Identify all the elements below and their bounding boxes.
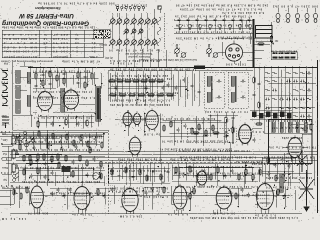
osc vert 206: [205, 20, 207, 33]
if cap 146: [145, 86, 148, 91]
band contact circles: [18, 138, 35, 147]
aud res 24-172: [23, 169, 25, 176]
if res row2 170: [166, 94, 174, 96]
lm res 48-146: [47, 143, 49, 150]
tube V5 EM80: [128, 135, 142, 157]
bs vert 1: [263, 66, 265, 133]
lm res 88-144: [87, 141, 89, 148]
bt res 98: [97, 189, 99, 196]
ld vert 5: [139, 163, 141, 183]
bt cap 112: [111, 188, 114, 193]
lr cap 225: [224, 174, 227, 179]
IF2 coil a: [231, 76, 234, 86]
switch spring right: [158, 17, 161, 46]
svg-text:70 12k 12k 500 70 10n 220k 5p: 70 12k 12k 500 70 10n 220k 5p 4,7n 0,5M …: [173, 172, 258, 175]
m2 res 192: [191, 128, 193, 135]
aud cap 73-162: [72, 160, 75, 165]
lm res 67-137: [66, 134, 68, 141]
svg-text:500 220k 47 6,8 50 2k2: 500 220k 47 6,8 50 2k2: [272, 5, 318, 8]
osc vert 242: [241, 20, 243, 33]
svg-text:4x: 4x: [43, 33, 47, 37]
svg-text:MW: MW: [1, 114, 6, 118]
if cap 176: [175, 86, 178, 91]
osc trimmer 7: [238, 24, 242, 30]
rf v2 R@83: [42, 79, 44, 86]
v6 left C@132: [225, 130, 228, 135]
if res row1 160: [156, 80, 164, 82]
v7res: [310, 124, 312, 131]
bt cap 158: [157, 193, 160, 198]
ld vert 2: [118, 161, 120, 181]
osc vert 224: [223, 20, 225, 33]
lm cap 95-139: [94, 137, 97, 142]
lm sym 25: [23, 131, 26, 134]
svg-text:2k2 0,5M 1M 6,8 70 12k 10n 6,8: 2k2 0,5M 1M 6,8 70 12k 10n 6,8: [111, 74, 168, 77]
coupling coil L4: [27, 72, 31, 83]
svg-text:UKW 868-100 MHz: UKW 868-100 MHz: [4, 37, 38, 41]
v6 left R@120: [225, 116, 227, 123]
ld res 126: [125, 166, 127, 173]
if vert 13: [191, 71, 193, 106]
tube V3a EABC80: [121, 110, 135, 127]
v6 left2 wire: [232, 112, 234, 144]
svg-text:8n 0,1 0,1 3n 47 47 10n 1k 50: 8n 0,1 0,1 3n 47 47 10n 1k 50 100p 47 22…: [179, 7, 262, 10]
tc c1: [36, 159, 39, 164]
switch contact A2: [116, 17, 122, 24]
v6 left2 R@130: [232, 126, 234, 133]
if cap 192: [191, 84, 194, 89]
bs cap 295.5-81: [293, 80, 298, 83]
bs coil 267.5-90: [266, 89, 270, 91]
bt res 21: [20, 193, 22, 200]
C below V1: [51, 122, 54, 127]
rf v6 C@83: [77, 81, 80, 86]
if vert 12: [184, 71, 186, 107]
tube V3b: [132, 111, 146, 126]
lm sym 32: [30, 136, 33, 139]
bs coil 309-108: [307, 107, 311, 109]
bs cap 295.5-99: [293, 98, 298, 101]
osc row1 cap 1: [178, 18, 181, 23]
aud res 52-159: [51, 156, 53, 163]
aud cap 94-159: [93, 157, 96, 162]
bs cap 267.5-108: [265, 107, 270, 110]
aud res 31-162: [30, 159, 32, 166]
if cap 168: [167, 83, 170, 88]
rf v8 R@76: [91, 72, 93, 79]
v6 left2 C@118: [232, 116, 235, 121]
IF col B: [96, 86, 101, 121]
meter box arrow: [270, 40, 274, 45]
lm res 81-138: [80, 135, 82, 142]
rf v4 R@78: [56, 74, 58, 81]
bs coil 281.5-108: [280, 107, 284, 109]
svg-text:100p 500 25k 1M 5p 0,1 8n 5p 2: 100p 500 25k 1M 5p 0,1 8n 5p 2k2 6,8 3n …: [19, 166, 104, 169]
R below V1: [37, 120, 39, 127]
power mesh: [262, 153, 315, 186]
bt cap 152: [151, 187, 154, 192]
if res row1 112: [108, 80, 116, 82]
switch contact A5: [137, 17, 143, 24]
osc row1 cap 7: [232, 18, 235, 23]
left vertical bus: [12, 62, 14, 130]
bt res 164: [163, 187, 165, 194]
coil col A: [61, 88, 65, 112]
rd cap2: [224, 135, 229, 138]
switch contact C7: [151, 38, 157, 45]
ld vert 9: [167, 163, 169, 182]
rf v1 C@86: [35, 84, 38, 89]
svg-text:Bereichsangaben: Bereichsangaben: [4, 55, 37, 59]
switch contact A6: [144, 17, 150, 24]
lr res 239: [238, 173, 240, 180]
bottom tube riser wires: [27, 164, 277, 214]
ld vert 8: [160, 162, 162, 185]
svg-text:NF: NF: [274, 39, 278, 43]
antenna loop 2: [2, 84, 8, 93]
v7wires: [290, 124, 314, 142]
pw wires: [262, 158, 300, 182]
switch unit drop wires: [118, 49, 150, 67]
bs coil 302.5-108: [301, 107, 305, 109]
bt res 27: [26, 187, 28, 194]
svg-text:10n 220k 30p 1M 100p 8n 1k 0,5: 10n 220k 30p 1M 100p 8n 1k 0,5M 25k: [109, 103, 170, 106]
bs coil 288.5-108: [287, 107, 291, 109]
svg-text:25k 2k2 70: 25k 2k2 70: [27, 212, 48, 215]
tube V8 EL95: [29, 184, 45, 210]
osc row1 wire: [174, 19, 253, 21]
rf v2 wire: [42, 68, 44, 88]
if vert 14: [198, 71, 200, 106]
bv2: [159, 136, 161, 164]
if res row2 151: [147, 94, 155, 96]
rf v5 R@81: [63, 77, 65, 84]
lr cap 197: [196, 174, 199, 179]
rf lower mesh: [31, 113, 102, 129]
bottom mesh a: [10, 185, 300, 212]
rf v1 wire: [35, 68, 37, 92]
switch contact A1: [109, 17, 115, 24]
aud res 38-157: [37, 154, 39, 161]
ld cap 168: [167, 170, 170, 175]
m2 res 213: [212, 125, 214, 132]
drum wires: [218, 20, 254, 64]
svg-text:0,5M 10n 0,1 47 500: 0,5M 10n 0,1 47 500: [271, 126, 308, 129]
switch header circles: [116, 6, 161, 11]
mid v1 R@80: [253, 76, 255, 83]
osc trimmer 6: [228, 24, 232, 30]
IF2 core dark: [235, 76, 237, 102]
osc row1 cap 2: [187, 18, 190, 23]
dark component on bus: [194, 66, 205, 69]
aud cap 52-173: [51, 171, 54, 176]
svg-text:Gerufon-Radio Quedlinburg: Gerufon-Radio Quedlinburg: [2, 19, 89, 26]
osc row1 cap 9: [248, 18, 251, 23]
rf hlink: [33, 73, 92, 89]
lamp ticks: [278, 8, 316, 13]
IF1 cap a: [217, 80, 222, 83]
bt res 14: [13, 189, 15, 196]
meter box: [256, 26, 273, 39]
aud res 73-174: [72, 171, 74, 178]
bt res 236: [235, 193, 237, 200]
switch contact B3: [138, 28, 143, 35]
mid bus lines: [2, 152, 318, 164]
tube V6 ECH81: [237, 122, 253, 145]
lm res 39-134: [38, 131, 40, 138]
ratio det dashed box: [187, 128, 236, 142]
osc coil 272: [272, 122, 275, 132]
switch column wires: [113, 13, 155, 49]
drum area wires: [222, 38, 254, 66]
dark block: [62, 166, 71, 172]
bs coil 274.5-73: [273, 72, 277, 74]
component value table: [2, 30, 103, 58]
switch contact C3: [123, 38, 129, 45]
svg-text:Ultra-FERRIT 58 W: Ultra-FERRIT 58 W: [18, 12, 74, 19]
speech switch contacts: [13, 172, 19, 181]
if res row1 136: [132, 80, 140, 82]
lm wires: [2, 134, 105, 144]
svg-text:70 30p 10n: 70 30p 10n: [71, 213, 92, 216]
svg-text:4,7n 12k 0,1 2k2 0,1 0,1 220k: 4,7n 12k 0,1 2k2 0,1 0,1 220k 220k 47 50…: [174, 185, 258, 188]
ld hwires: [108, 168, 170, 183]
if vert 5: [135, 71, 137, 106]
lr cap 204: [203, 169, 206, 174]
potentiometer P1: [12, 135, 19, 146]
tube V13 EZ81: [215, 185, 234, 211]
bs cap 302.5-81: [300, 80, 305, 83]
bs vert 5: [291, 66, 293, 133]
m2 res 199: [198, 124, 200, 131]
svg-text:220k 220k 47 0,5M 30p 3n 10n 2: 220k 220k 47 0,5M 30p 3n 10n 220k 220k 8…: [21, 180, 100, 183]
rf v6 R@75: [77, 71, 79, 78]
svg-text:25k 0,1 0,5M: 25k 0,1 0,5M: [120, 215, 142, 218]
tc r3: [57, 154, 59, 161]
osc row1 cap 3: [196, 18, 199, 23]
bs vert 4: [284, 66, 286, 133]
if res row1 152: [148, 80, 156, 82]
IF1 coil a: [207, 76, 210, 86]
svg-text:70 50 12k 220k 1k 500 220k 1M: 70 50 12k 220k 1k 500 220k 1M 8n 0,5M 0,…: [175, 149, 250, 151]
svg-text:4,5: 4,5: [43, 37, 48, 41]
lr res 176: [175, 166, 177, 173]
bs coil 274.5-99: [273, 98, 277, 100]
heavy divider: [253, 19, 255, 67]
svg-text:Stromlaufplan: Stromlaufplan: [35, 6, 61, 10]
ant coil L3: [16, 100, 21, 113]
bs vert 6: [298, 66, 300, 133]
svg-text:1 F: 1 F: [91, 45, 96, 49]
le wires: [2, 146, 12, 186]
divider stubs: [254, 38, 267, 58]
svg-text:25k 30p 2k2 1k: 25k 30p 2k2 1k: [114, 3, 147, 7]
if vert 1: [107, 71, 109, 101]
mid v1 C@95: [253, 93, 256, 98]
ladder mesh: [108, 163, 169, 184]
aud res 101-164: [100, 161, 102, 168]
bs vert 7: [305, 66, 307, 133]
IF core dark bar: [97, 88, 99, 119]
svg-text:47 1M 0,5M 4,7n 100p: 47 1M 0,5M 4,7n 100p: [62, 60, 100, 64]
rf v7 wire: [84, 68, 86, 90]
rd res2: [212, 132, 219, 134]
lr res 190: [189, 165, 191, 172]
tube V11 EL84b: [172, 184, 189, 211]
osc vert 188: [187, 20, 189, 33]
right edge bus: [317, 60, 319, 213]
v7 pins: [283, 147, 307, 163]
ld cap 154: [153, 169, 156, 174]
mid v2 R@105: [258, 101, 260, 108]
bs coil 295.5-90: [294, 89, 298, 91]
IF1 coil b: [207, 92, 210, 102]
bt cap 242: [241, 188, 244, 193]
bt cap 64: [63, 194, 66, 199]
osc coil 280: [280, 122, 283, 132]
osc coil 288: [288, 122, 291, 132]
halftone stamp block: [94, 30, 110, 38]
ant coil L1: [16, 70, 21, 83]
ld res 112: [111, 168, 113, 175]
svg-text:25k 25k 220k: 25k 25k 220k: [281, 136, 302, 138]
lm sym 18: [16, 134, 19, 137]
rf v1 R@76: [35, 72, 37, 79]
svg-text:5p 3n 0,5M 5p 4,7n 30p 1M 0,1: 5p 3n 0,5M 5p 4,7n 30p 1M 0,1 30p: [169, 158, 230, 161]
v6 left wire: [225, 112, 227, 140]
osc coil 296: [296, 122, 299, 132]
mid-left hlines: [0, 133, 108, 137]
svg-text:4,7n 3n 220k 220k 5p 50 12k 1k: 4,7n 3n 220k 220k 5p 50 12k 1k 12k 500 5…: [189, 216, 298, 219]
bt cap 146: [145, 191, 148, 196]
if lower mesh: [160, 113, 232, 145]
pw res 268: [267, 156, 269, 163]
tube V7 EF85: [287, 135, 304, 159]
left mid mesh: [12, 131, 105, 150]
aud res 66-158: [65, 155, 67, 162]
tube V12 EAA91: [196, 169, 210, 187]
bt cap 70: [69, 188, 72, 193]
svg-text:6,8 1k 2k2 10n 0,1 4,7n: 6,8 1k 2k2 10n 0,1 4,7n: [222, 11, 264, 14]
lower right mesh: [172, 162, 260, 184]
aud res 101-176: [100, 173, 102, 180]
bs cap 302.5-116: [300, 115, 305, 118]
aud wires: [10, 156, 105, 182]
ld vert 6: [146, 165, 148, 181]
if cap 199: [198, 90, 201, 95]
NF resistor: [270, 35, 272, 43]
svg-text:0,1 4,7n 100p 70 4,7n 100p 500: 0,1 4,7n 100p 70 4,7n 100p 500 500: [111, 99, 170, 102]
aud res 59-165: [58, 162, 60, 169]
bs cap 267.5-116: [265, 115, 270, 118]
aud cap 87-175: [86, 173, 89, 178]
lm res 74-143: [73, 140, 75, 147]
m2 cap 185: [184, 124, 187, 129]
svg-text:47 100p 3n 30p 6,8 1M 8n 5p 50: 47 100p 3n 30p 6,8 1M 8n 5p 500 2k2 1k: [174, 15, 252, 18]
lr res 253: [252, 173, 254, 180]
svg-text:4,5: 4,5: [75, 41, 80, 45]
lm res 20-147: [19, 144, 21, 151]
connector block bars: [273, 52, 296, 58]
osc row3 wire: [174, 32, 253, 34]
bs coil 302.5-73: [301, 72, 305, 74]
v3 area mesh: [115, 110, 160, 136]
bs cap 267.5-99: [265, 98, 270, 101]
osc row1 cap 5: [214, 18, 217, 23]
pw res 276: [275, 174, 277, 181]
svg-text:500 220k 10n 3n 4,7n 8n 10n 0,: 500 220k 10n 3n 4,7n 8n 10n 0,1 50 4,7n …: [176, 24, 250, 27]
bottom hwires: [2, 187, 252, 188]
if cap 116: [115, 86, 118, 91]
lm cap 60-142: [59, 140, 62, 145]
if res row2 113: [109, 94, 117, 96]
junction dots: [35, 67, 304, 68]
svg-text:500 220k 8n 6,8 4,7n 25k 70 0,: 500 220k 8n 6,8 4,7n 25k 70 0,1 50 500 5…: [37, 1, 114, 4]
svg-text:Ultra 222: Ultra 222: [4, 33, 37, 37]
svg-text:1M 2k2 8n 220k 2k2 8n 6,8: 1M 2k2 8n 220k 2k2 8n 6,8: [263, 156, 314, 159]
svg-text:1k 12k 50 5p 220k 50 500 30p 2: 1k 12k 50 5p 220k 50 500 30p 2k2 30p 1k …: [109, 68, 196, 71]
audio mesh: [18, 164, 101, 182]
tc c2: [50, 158, 53, 163]
switch contact A3: [123, 17, 129, 24]
svg-text:10n 30p 10n 6,8 5p 8n 220k: 10n 30p 10n 6,8 5p 8n 220k: [265, 176, 312, 179]
tc r2: [43, 154, 45, 161]
svg-text:FM: FM: [3, 62, 8, 66]
bt cap 52: [51, 192, 54, 197]
R below V2: [65, 118, 67, 125]
svg-text:MW 1,6-0,52: MW 1,6-0,52: [4, 45, 37, 49]
if vert 2: [114, 71, 116, 101]
v6 res: [255, 123, 262, 125]
more risers: [55, 170, 290, 186]
antenna loop 3: [2, 97, 8, 106]
switch contact C6: [144, 38, 150, 45]
tube V4 EF89: [144, 108, 160, 131]
output transformer X: [297, 150, 307, 172]
ld res 147: [146, 174, 148, 181]
m2 res 171: [170, 121, 172, 128]
if res row2 160.5: [157, 94, 165, 96]
lr hwires: [172, 167, 262, 181]
down arrow: [303, 207, 309, 213]
v6 wires: [208, 115, 288, 128]
bs cap 302.5-99: [300, 98, 305, 101]
svg-text:Bass: Bass: [1, 166, 7, 170]
svg-text:70 500 30p 4,7n 25k 47 47 1M: 70 500 30p 4,7n 25k 47 47 1M: [110, 169, 168, 172]
pilot lamps: [276, 13, 318, 22]
rf v3 R@74: [49, 70, 51, 77]
bs cap 309-90: [307, 89, 312, 92]
if res row2 122.5: [119, 94, 127, 96]
aud res 38-171: [37, 168, 39, 175]
IF can 2 box: [228, 72, 248, 108]
switch contact B2: [131, 28, 136, 35]
lm res 53-136: [52, 133, 54, 140]
bs coil 309-99: [307, 98, 311, 100]
bs vert 8: [311, 66, 313, 133]
osc trimmer 8: [248, 24, 252, 30]
osc trimmer 4: [208, 24, 212, 30]
svg-text:gemessen: gemessen: [53, 55, 68, 59]
tube V14 rect: [255, 181, 275, 211]
v6 cap: [253, 138, 256, 143]
ld res 140: [139, 168, 141, 175]
lr res 246: [245, 168, 247, 175]
m2 res 206: [205, 130, 207, 137]
oscillator coil cores dark: [252, 112, 291, 119]
svg-text:Tief: Tief: [3, 152, 8, 156]
if res row1 144: [140, 80, 148, 82]
